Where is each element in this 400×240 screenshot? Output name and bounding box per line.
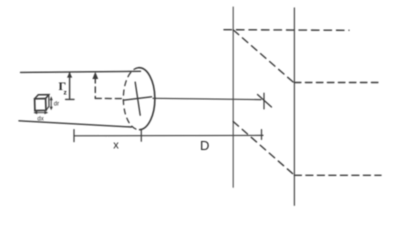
svg-text:dx: dx (37, 116, 43, 122)
differential cube top face (35, 95, 49, 99)
cylinder bottom edge (19, 121, 132, 127)
dx double arrow (35, 112, 46, 114)
differential cube right face (46, 95, 49, 111)
svg-text:x: x (113, 140, 119, 152)
dimension tick middle (140, 130, 142, 141)
svg-text:z: z (64, 90, 68, 97)
dr double arrow (50, 99, 52, 109)
differential cube front face (35, 99, 46, 111)
dashed axis segment to end-face center (95, 97, 123, 99)
svg-text:dr: dr (54, 102, 59, 108)
plane 1 vertical line (232, 7, 234, 187)
dashed projection middle horizontal (294, 82, 382, 84)
dashed projection top horizontal (224, 29, 349, 32)
cylinder end-face ellipse hidden left arc (dashed) (123, 68, 139, 130)
svg-text:D: D (200, 138, 209, 153)
center mark cross horizontal stroke (124, 97, 152, 100)
dashed vertical radius line with arrow (94, 78, 96, 99)
cylinder top edge (21, 71, 141, 72)
dimension tick right (261, 130, 263, 140)
axis end vertical tick (263, 93, 265, 109)
plane 2 vertical line (293, 8, 295, 205)
x and D dimension line (74, 134, 263, 136)
label r2 (gamma-like) (59, 79, 68, 97)
cylinder end-face ellipse solid right arc (139, 68, 155, 130)
axis end slash (258, 95, 272, 108)
r-bar dimension line (69, 73, 71, 99)
center mark cross vertical stroke (135, 82, 140, 115)
dimension tick left (73, 130, 75, 142)
cylinder axis line to plane (153, 98, 261, 99)
dashed projection top diagonal (233, 30, 294, 83)
r-bar dimension bottom T-bar (66, 98, 74, 100)
dashed projection bottom diagonal (233, 122, 294, 175)
dashed projection bottom horizontal (294, 174, 381, 176)
arrowhead of dashed radius line (92, 72, 98, 79)
r-bar dimension top arrowhead (67, 72, 72, 78)
